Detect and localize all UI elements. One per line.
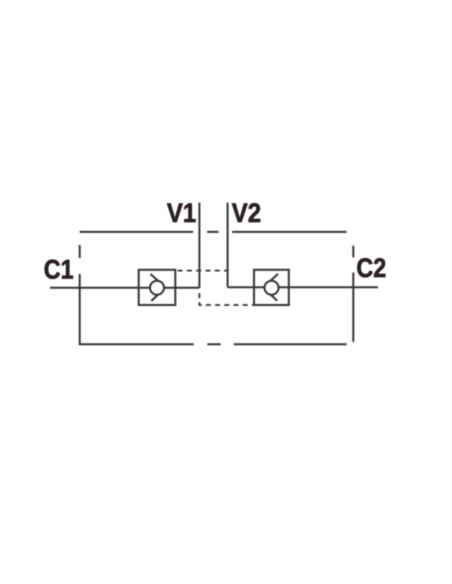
svg-text:V1: V1: [167, 198, 196, 228]
svg-text:C1: C1: [44, 255, 74, 285]
svg-text:C2: C2: [356, 253, 386, 283]
svg-text:V2: V2: [232, 198, 261, 228]
